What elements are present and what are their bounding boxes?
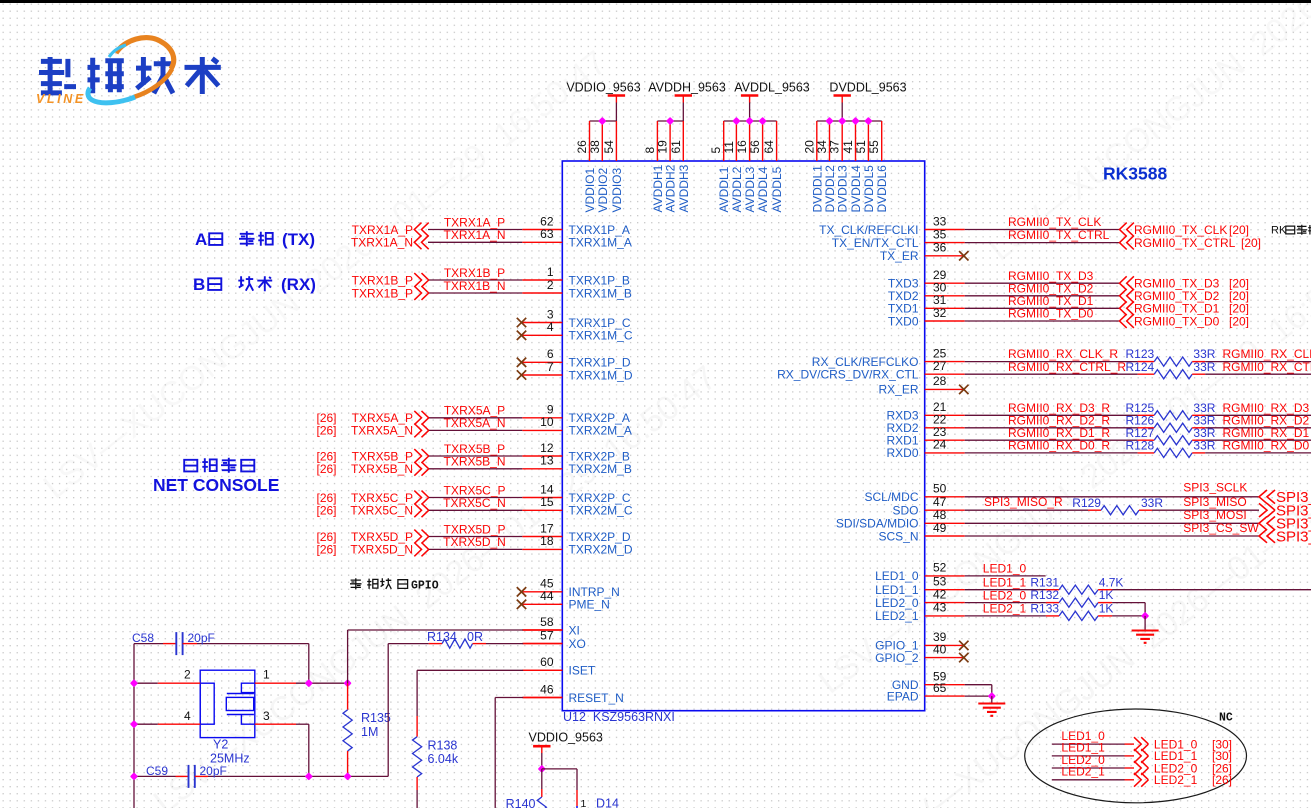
svg-text:TXRX1B_P: TXRX1B_P bbox=[444, 266, 505, 280]
svg-text:D14: D14 bbox=[596, 797, 619, 808]
XO riser + resistor R134 0R bbox=[388, 630, 562, 776]
svg-text:54: 54 bbox=[602, 140, 616, 154]
svg-text:27: 27 bbox=[933, 359, 947, 373]
pin 62 TXRX1P_A bbox=[352, 214, 630, 237]
pin 10 TXRX2M_A bbox=[317, 415, 632, 438]
svg-text:R140: R140 bbox=[506, 797, 536, 808]
XI riser wire bbox=[347, 630, 349, 683]
capacitor C58 20pF bbox=[132, 631, 309, 655]
pin 22 RXD2 / resistor R126 33R bbox=[886, 413, 1311, 436]
svg-text:R138: R138 bbox=[428, 738, 458, 752]
pin 43 LED2_1 / resistor R133 1K bbox=[875, 601, 1113, 624]
logo VLINE 稳联技术 bbox=[36, 38, 221, 106]
pin 42 LED2_0 / resistor R132 1K bbox=[875, 587, 1113, 610]
pin 24 RXD0 / resistor R128 33R bbox=[886, 438, 1311, 461]
pin 7 TXRX1M_D bbox=[517, 360, 633, 383]
svg-text:R135: R135 bbox=[361, 711, 391, 725]
svg-text:56: 56 bbox=[748, 140, 762, 154]
pin 45 INTRP_N bbox=[517, 577, 620, 600]
svg-text:NET CONSOLE: NET CONSOLE bbox=[153, 475, 279, 495]
svg-text:4.7K: 4.7K bbox=[1099, 575, 1124, 589]
ground bbox=[978, 704, 1005, 716]
svg-text:DVDDL6: DVDDL6 bbox=[875, 165, 889, 213]
svg-text:50: 50 bbox=[933, 482, 947, 496]
svg-text:TX_ER: TX_ER bbox=[880, 249, 919, 263]
svg-text:RGMII0_TX_CLK: RGMII0_TX_CLK bbox=[1008, 215, 1101, 229]
svg-text:XI: XI bbox=[569, 623, 580, 637]
pin 65 EPAD bbox=[887, 681, 992, 704]
svg-text:LED2_1: LED2_1 bbox=[1154, 773, 1198, 787]
svg-text:7: 7 bbox=[547, 360, 554, 374]
pin 57 XO bbox=[522, 628, 586, 651]
svg-text:[26]: [26] bbox=[317, 504, 337, 518]
diode D14 bbox=[542, 769, 619, 808]
power net VDDIO_9563 bottom bbox=[529, 730, 603, 773]
svg-text:RGMII0_TX_CTRL: RGMII0_TX_CTRL bbox=[1134, 236, 1236, 250]
pin 49 SCS_N bbox=[878, 521, 1311, 546]
svg-text:C59: C59 bbox=[146, 764, 168, 778]
svg-text:SPI3_MISO: SPI3_MISO bbox=[1183, 495, 1246, 509]
svg-text:AVDDL2: AVDDL2 bbox=[730, 166, 744, 212]
svg-text:R124: R124 bbox=[1126, 360, 1155, 374]
svg-text:28: 28 bbox=[933, 374, 947, 388]
svg-text:DVDDL_9563: DVDDL_9563 bbox=[829, 81, 906, 95]
svg-text:61: 61 bbox=[669, 140, 683, 154]
pin 33 TX_CLK/REFCLKI bbox=[819, 214, 1249, 237]
svg-text:TXRX5B_N: TXRX5B_N bbox=[351, 462, 413, 476]
svg-text:[20]: [20] bbox=[1241, 236, 1261, 250]
svg-text:DVDDL3: DVDDL3 bbox=[836, 165, 850, 213]
svg-text:SPI3_CS_SW: SPI3_CS_SW bbox=[1183, 521, 1259, 535]
svg-text:33R: 33R bbox=[1193, 439, 1215, 453]
pin 31 TXD1 bbox=[888, 293, 1249, 316]
svg-text:15: 15 bbox=[540, 495, 554, 509]
RESET_N wire bbox=[495, 697, 523, 699]
svg-text:SPI3_MISO_R: SPI3_MISO_R bbox=[984, 495, 1063, 509]
svg-text:DVDDL5: DVDDL5 bbox=[862, 165, 876, 213]
svg-text:TXRX5C_N: TXRX5C_N bbox=[350, 504, 413, 518]
pin 29 TXD3 bbox=[888, 268, 1249, 291]
svg-text:TXRX1B_P: TXRX1B_P bbox=[352, 286, 413, 300]
svg-text:TXD0: TXD0 bbox=[888, 314, 919, 328]
svg-text:RGMII0_TX_CLK: RGMII0_TX_CLK bbox=[1134, 223, 1227, 237]
svg-text:TXRX5D_P: TXRX5D_P bbox=[443, 522, 505, 536]
svg-text:TXRX1M_A: TXRX1M_A bbox=[569, 236, 632, 250]
svg-text:53: 53 bbox=[933, 575, 947, 589]
svg-text:2: 2 bbox=[184, 667, 191, 681]
power net DVDDL_9563 bbox=[802, 81, 906, 162]
svg-text:TXRX2M_D: TXRX2M_D bbox=[569, 543, 633, 557]
svg-text:NC: NC bbox=[1219, 712, 1233, 725]
node XTAL left vertical bbox=[133, 644, 135, 808]
svg-text:SDO: SDO bbox=[892, 504, 918, 518]
svg-text:AVDDH_9563: AVDDH_9563 bbox=[648, 81, 726, 95]
svg-text:AVDDL3: AVDDL3 bbox=[743, 166, 757, 212]
svg-text:[26]: [26] bbox=[317, 530, 337, 544]
svg-text:TXRX1M_D: TXRX1M_D bbox=[569, 368, 633, 382]
pin 23 RXD1 / resistor R127 33R bbox=[886, 425, 1311, 448]
svg-text:42: 42 bbox=[933, 587, 947, 601]
svg-text:35: 35 bbox=[933, 227, 947, 241]
svg-text:C58: C58 bbox=[132, 631, 154, 645]
svg-text:R131: R131 bbox=[1030, 575, 1059, 589]
svg-text:37: 37 bbox=[828, 140, 842, 154]
svg-text:TX_EN/TX_CTL: TX_EN/TX_CTL bbox=[832, 236, 919, 250]
svg-text:16: 16 bbox=[735, 140, 749, 154]
svg-text:TXRX1P_B: TXRX1P_B bbox=[569, 273, 630, 287]
pin 4 TXRX1M_C bbox=[517, 320, 633, 343]
power net AVDDH_9563 bbox=[643, 81, 726, 162]
svg-text:TXRX1A_N: TXRX1A_N bbox=[443, 228, 505, 242]
wire pin4 bbox=[134, 723, 158, 725]
wire pin1 to XI riser bbox=[255, 682, 296, 684]
wire to ground bbox=[991, 696, 993, 703]
svg-text:32: 32 bbox=[933, 306, 947, 320]
svg-text:40: 40 bbox=[933, 642, 947, 656]
svg-text:[26]: [26] bbox=[317, 543, 337, 557]
svg-text:AVDDL5: AVDDL5 bbox=[770, 166, 784, 212]
annotation B-pair RX bbox=[193, 275, 316, 294]
svg-text:52: 52 bbox=[933, 561, 947, 575]
pin 48 SDI/SDA/MDIO bbox=[836, 508, 1311, 533]
svg-text:SPI3_CS_SW: SPI3_CS_SW bbox=[1276, 528, 1311, 545]
svg-text:51: 51 bbox=[854, 140, 868, 154]
svg-text:0R: 0R bbox=[467, 630, 483, 644]
pin 52 LED1_0 bbox=[875, 561, 1045, 584]
resistor R135 1M bbox=[343, 683, 391, 776]
svg-text:RGMII0_RX_D0: RGMII0_RX_D0 bbox=[1223, 439, 1310, 453]
wire R132 to gnd corner bbox=[1112, 602, 1145, 604]
pin 40 GPIO_2 bbox=[875, 642, 968, 665]
svg-text:TXRX2M_A: TXRX2M_A bbox=[569, 424, 632, 438]
svg-text:LED1_0: LED1_0 bbox=[875, 569, 919, 583]
svg-text:LED2_0: LED2_0 bbox=[983, 588, 1027, 602]
resistor R140 bbox=[506, 769, 547, 808]
annotation RK port note bbox=[1271, 225, 1311, 237]
svg-text:TXRX5A_N: TXRX5A_N bbox=[351, 424, 413, 438]
svg-text:R128: R128 bbox=[1126, 439, 1155, 453]
svg-text:1: 1 bbox=[547, 265, 554, 279]
pin 12 TXRX2P_B bbox=[317, 441, 630, 464]
svg-text:LED1_1: LED1_1 bbox=[983, 576, 1027, 590]
svg-text:[26]: [26] bbox=[317, 462, 337, 476]
svg-text:GPIO: GPIO bbox=[411, 579, 439, 592]
pin 63 TXRX1M_A bbox=[351, 227, 632, 250]
svg-text:TXRX5C_N: TXRX5C_N bbox=[443, 496, 506, 510]
pin 2 TXRX1M_B bbox=[352, 278, 632, 301]
svg-text:4: 4 bbox=[547, 320, 554, 334]
svg-text:[26]: [26] bbox=[1212, 773, 1232, 787]
node LED1_0 port bbox=[1052, 729, 1232, 752]
pin 35 TX_EN/TX_CTL bbox=[832, 227, 1261, 250]
pin 30 TXD2 bbox=[888, 281, 1249, 304]
svg-text:(TX): (TX) bbox=[282, 230, 315, 249]
node LED2_0 port bbox=[1052, 753, 1232, 776]
svg-text:SPI3_SCLK: SPI3_SCLK bbox=[1183, 481, 1247, 495]
svg-text:LED1_0: LED1_0 bbox=[983, 562, 1027, 576]
svg-text:R132: R132 bbox=[1030, 588, 1059, 602]
pin 39 GPIO_1 bbox=[875, 630, 968, 653]
svg-text:1: 1 bbox=[581, 798, 587, 808]
pin 58 XI bbox=[522, 615, 580, 638]
svg-text:PME_N: PME_N bbox=[569, 598, 610, 612]
svg-text:AVDDH2: AVDDH2 bbox=[664, 164, 678, 212]
svg-text:TX_CLK/REFCLKI: TX_CLK/REFCLKI bbox=[819, 223, 918, 237]
svg-text:TXRX1M_B: TXRX1M_B bbox=[569, 286, 632, 300]
svg-text:20pF: 20pF bbox=[200, 764, 227, 778]
svg-text:17: 17 bbox=[540, 521, 554, 535]
svg-text:ISET: ISET bbox=[569, 664, 596, 678]
svg-text:R134: R134 bbox=[427, 630, 457, 644]
svg-text:AVDDH3: AVDDH3 bbox=[677, 164, 691, 212]
svg-text:RX_DV/CRS_DV/RX_CTL: RX_DV/CRS_DV/RX_CTL bbox=[777, 368, 919, 382]
resistor R138 6.04k / ISET wire bbox=[413, 670, 563, 808]
svg-text:58: 58 bbox=[540, 615, 554, 629]
power net AVDDL_9563 bbox=[709, 81, 810, 162]
svg-text:A: A bbox=[195, 230, 207, 249]
pin 46 RESET_N bbox=[522, 682, 624, 705]
svg-text:TXRX1B_P: TXRX1B_P bbox=[352, 273, 413, 287]
pin 53 LED1_1 / resistor R131 4.7K bbox=[875, 575, 1123, 598]
svg-text:43: 43 bbox=[933, 601, 947, 615]
svg-text:11: 11 bbox=[722, 141, 736, 154]
pin 13 TXRX2M_B bbox=[317, 454, 632, 477]
pin 50 SCL/MDC bbox=[864, 481, 1311, 507]
svg-text:TXRX5D_P: TXRX5D_P bbox=[351, 530, 413, 544]
svg-text:VDDIO2: VDDIO2 bbox=[596, 167, 610, 212]
node LED1_1 port bbox=[1052, 741, 1232, 764]
svg-text:13: 13 bbox=[540, 454, 554, 468]
svg-text:VLINE: VLINE bbox=[36, 92, 86, 106]
pin 27 RX_DV/CRS_DV/RX_CTL / resistor R124 33R bbox=[777, 359, 1311, 382]
svg-text:VDDIO_9563: VDDIO_9563 bbox=[529, 730, 603, 744]
pin 9 TXRX2P_A bbox=[317, 403, 630, 426]
svg-text:1K: 1K bbox=[1099, 588, 1114, 602]
svg-text:[26]: [26] bbox=[317, 424, 337, 438]
junction bbox=[988, 692, 996, 700]
svg-text:18: 18 bbox=[540, 534, 554, 548]
svg-text:RESET_N: RESET_N bbox=[569, 691, 624, 705]
svg-text:47: 47 bbox=[933, 495, 947, 509]
svg-text:20pF: 20pF bbox=[188, 631, 215, 645]
svg-text:TXRX5D_N: TXRX5D_N bbox=[350, 543, 413, 557]
svg-text:63: 63 bbox=[540, 227, 554, 241]
pin 25 RX_CLK/REFCLKO / resistor R123 33R bbox=[812, 346, 1311, 369]
svg-text:EPAD: EPAD bbox=[887, 689, 919, 703]
svg-text:46: 46 bbox=[540, 682, 554, 696]
annotation NET CONSOLE bbox=[153, 458, 279, 495]
pin 28 RX_ER bbox=[878, 374, 968, 397]
pin 1 TXRX1P_B bbox=[352, 265, 630, 288]
svg-text:RGMII0_TX_D0: RGMII0_TX_D0 bbox=[1008, 307, 1094, 321]
svg-text:R129: R129 bbox=[1072, 496, 1101, 510]
svg-text:TXRX1M_C: TXRX1M_C bbox=[569, 329, 633, 343]
junction bbox=[1141, 612, 1149, 620]
svg-text:Y2: Y2 bbox=[213, 738, 228, 752]
pin 18 TXRX2M_D bbox=[317, 534, 633, 557]
svg-text:2: 2 bbox=[547, 278, 554, 292]
op-amp U12 KSZ9563RNXI chip body bbox=[562, 161, 924, 711]
pin 44 PME_N bbox=[517, 589, 610, 612]
svg-text:[20]: [20] bbox=[1229, 223, 1249, 237]
svg-text:33R: 33R bbox=[1141, 496, 1163, 510]
svg-text:LED2_1: LED2_1 bbox=[875, 609, 919, 623]
svg-text:41: 41 bbox=[841, 140, 855, 154]
svg-text:LED2_0: LED2_0 bbox=[875, 596, 919, 610]
svg-text:RXD0: RXD0 bbox=[886, 446, 918, 460]
svg-text:TXRX1A_N: TXRX1A_N bbox=[351, 236, 413, 250]
svg-text:3: 3 bbox=[263, 709, 270, 723]
svg-text:TXRX5D_N: TXRX5D_N bbox=[443, 535, 506, 549]
annotation interrupt GPIO bbox=[350, 578, 439, 592]
svg-text:TXRX1B_N: TXRX1B_N bbox=[443, 279, 505, 293]
svg-text:LED2_1: LED2_1 bbox=[1061, 765, 1105, 779]
svg-text:LED2_1: LED2_1 bbox=[983, 602, 1027, 616]
svg-text:4: 4 bbox=[184, 709, 191, 723]
svg-text:10: 10 bbox=[540, 415, 554, 429]
svg-text:SCL/MDC: SCL/MDC bbox=[864, 490, 918, 504]
pin 3 TXRX1P_C bbox=[517, 307, 631, 330]
svg-text:49: 49 bbox=[933, 521, 947, 535]
svg-text:6.04k: 6.04k bbox=[428, 752, 459, 766]
svg-text:(RX): (RX) bbox=[281, 275, 316, 294]
node LED2_1 port bbox=[1052, 765, 1232, 788]
power net VDDIO_9563 bbox=[566, 81, 640, 162]
wire pin2 bbox=[134, 682, 158, 684]
svg-text:RX_ER: RX_ER bbox=[878, 383, 918, 397]
svg-text:65: 65 bbox=[933, 681, 947, 695]
svg-text:TXRX5A_N: TXRX5A_N bbox=[443, 416, 505, 430]
pin 21 RXD3 / resistor R125 33R bbox=[886, 400, 1311, 423]
svg-text:R133: R133 bbox=[1030, 602, 1059, 616]
svg-text:LED1_1: LED1_1 bbox=[875, 583, 919, 597]
svg-text:33: 33 bbox=[933, 214, 947, 228]
svg-text:19: 19 bbox=[656, 140, 670, 154]
svg-text:GPIO_2: GPIO_2 bbox=[875, 651, 919, 665]
svg-text:VDDIO_9563: VDDIO_9563 bbox=[566, 81, 640, 95]
svg-text:AVDDL4: AVDDL4 bbox=[756, 166, 770, 212]
pin 32 TXD0 bbox=[888, 306, 1249, 329]
svg-text:24: 24 bbox=[933, 438, 947, 452]
svg-text:SCS_N: SCS_N bbox=[878, 529, 918, 543]
wire LED1_1 pullup to edge bbox=[1112, 589, 1311, 591]
pin 15 TXRX2M_C bbox=[317, 495, 633, 517]
pin 17 TXRX2P_D bbox=[317, 521, 631, 544]
svg-text:TXRX2P_D: TXRX2P_D bbox=[569, 530, 631, 544]
pin 36 TX_ER bbox=[880, 241, 969, 264]
bottom rail / capacitor C59 20pF bbox=[130, 764, 388, 788]
svg-text:TXRX2M_C: TXRX2M_C bbox=[569, 504, 633, 518]
svg-text:1M: 1M bbox=[361, 725, 378, 739]
svg-text:RGMII0_RX_D0_R: RGMII0_RX_D0_R bbox=[1008, 439, 1110, 453]
svg-text:TXRX5B_N: TXRX5B_N bbox=[443, 455, 505, 469]
wire pin3 down bbox=[255, 723, 296, 725]
NC ellipse bbox=[1025, 709, 1247, 803]
crystal Y2 25MHz bbox=[184, 667, 270, 765]
annotation A-pair TX bbox=[195, 230, 315, 249]
pin 59 GND bbox=[892, 670, 992, 697]
svg-text:B: B bbox=[193, 275, 205, 294]
pin 47 SDO / resistor R129 33R bbox=[892, 495, 1311, 520]
wire C58 to crystal pin1 bbox=[308, 644, 310, 684]
wire R133 to gnd junction bbox=[1112, 615, 1145, 617]
pin 14 TXRX2P_C bbox=[317, 482, 631, 505]
svg-text:RGMII0_RX_CTRL: RGMII0_RX_CTRL bbox=[1223, 360, 1311, 374]
svg-text:36: 36 bbox=[933, 241, 947, 255]
svg-text:44: 44 bbox=[540, 589, 554, 603]
svg-text:U12 KSZ9563RNXI: U12 KSZ9563RNXI bbox=[563, 710, 675, 724]
pin 60 ISET bbox=[522, 655, 596, 678]
ground bbox=[1132, 631, 1159, 643]
svg-text:33R: 33R bbox=[1193, 360, 1215, 374]
svg-text:TXRX2M_B: TXRX2M_B bbox=[569, 462, 632, 476]
svg-text:XO: XO bbox=[569, 637, 586, 651]
svg-text:RK3588: RK3588 bbox=[1103, 164, 1167, 184]
svg-text:RGMII0_TX_CTRL: RGMII0_TX_CTRL bbox=[1008, 228, 1110, 242]
svg-text:VDDIO3: VDDIO3 bbox=[610, 167, 624, 212]
svg-text:RK: RK bbox=[1271, 225, 1287, 237]
svg-text:1K: 1K bbox=[1099, 602, 1114, 616]
svg-text:38: 38 bbox=[588, 140, 602, 154]
pin 6 TXRX1P_D bbox=[517, 347, 631, 370]
svg-text:RGMII0_TX_D0: RGMII0_TX_D0 bbox=[1134, 314, 1220, 328]
svg-text:60: 60 bbox=[540, 655, 554, 669]
svg-text:AVDDL_9563: AVDDL_9563 bbox=[734, 81, 810, 95]
svg-text:55: 55 bbox=[867, 140, 881, 154]
svg-text:DVDDL4: DVDDL4 bbox=[849, 165, 863, 213]
svg-text:64: 64 bbox=[762, 140, 776, 154]
svg-text:RGMII0_RX_CTRL_R: RGMII0_RX_CTRL_R bbox=[1008, 360, 1126, 374]
svg-text:[20]: [20] bbox=[1229, 314, 1249, 328]
svg-text:1: 1 bbox=[263, 667, 270, 681]
